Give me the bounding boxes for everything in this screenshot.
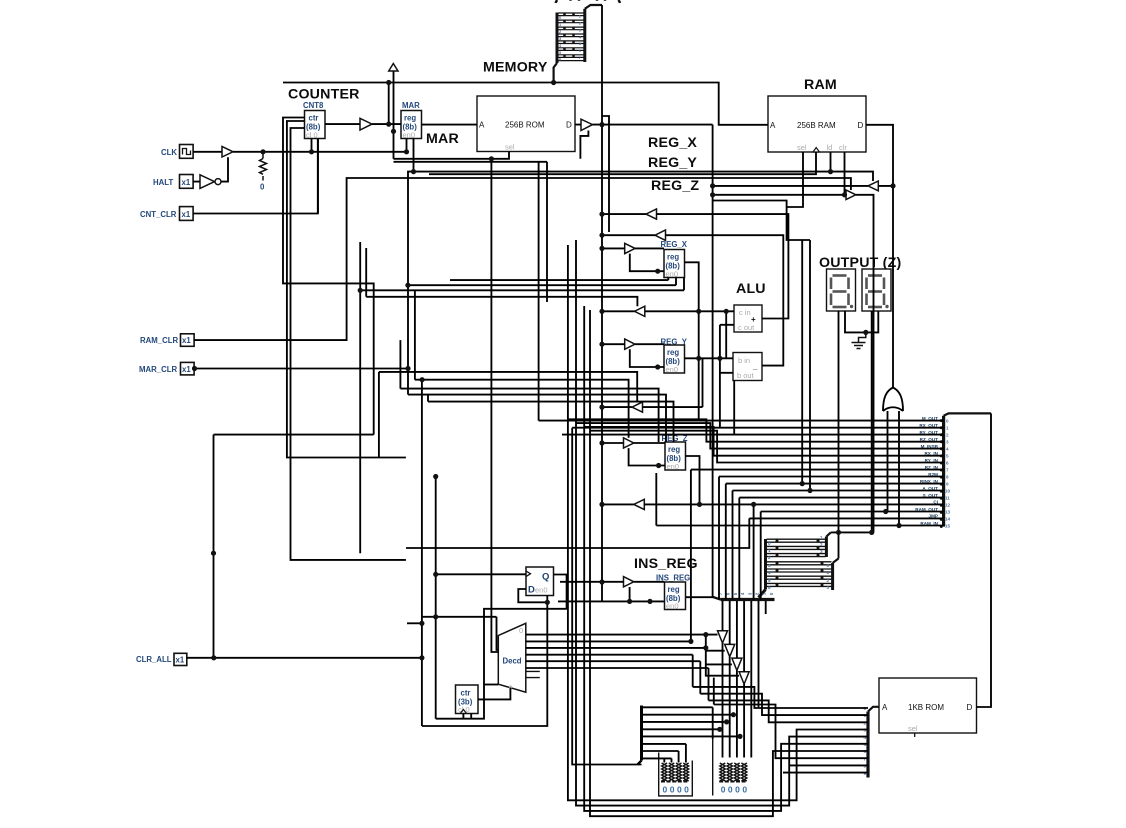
wire ROM D out — [977, 413, 992, 707]
wire RAM clr drop — [844, 152, 846, 195]
wire RAM_CLR net — [194, 178, 851, 340]
wire row9 RINX_IN — [726, 484, 944, 600]
wire CLR_ALL net — [187, 657, 422, 659]
svg-text:3: 3 — [946, 440, 949, 445]
buffer B_RY (in) — [625, 339, 635, 349]
svg-text:0: 0 — [827, 563, 830, 568]
wire row13 RAM_OUT — [761, 512, 944, 600]
svg-text:sel: sel — [797, 143, 807, 152]
wire MAR_CLR net — [194, 172, 873, 395]
wire RAM ld drop — [830, 152, 832, 172]
svg-text:2: 2 — [768, 555, 771, 560]
wire RAM clk drop — [429, 152, 816, 174]
wire ROM rows 8 9 — [783, 765, 868, 772]
svg-text:b in: b in — [738, 356, 750, 365]
svg-text:MAR: MAR — [402, 101, 420, 110]
svg-text:c out: c out — [738, 323, 755, 332]
register REG_Y reg(8b) — [664, 345, 685, 373]
wire flip-flop Q loop — [436, 575, 567, 719]
svg-text:REG_X: REG_X — [648, 135, 697, 151]
svg-text:x1: x1 — [182, 210, 191, 219]
svg-text:9: 9 — [946, 482, 949, 487]
svg-text:256B RAM: 256B RAM — [797, 121, 836, 130]
wire adder input line — [602, 310, 734, 312]
wire T3 enable — [366, 248, 637, 306]
svg-text:2: 2 — [820, 542, 823, 547]
wire REG_Y out to b-in — [685, 357, 734, 359]
svg-text:reg: reg — [667, 348, 679, 357]
wire MAR clock pin — [406, 139, 408, 152]
svg-text:4: 4 — [768, 570, 771, 575]
register REG_Z reg(8b) — [665, 442, 686, 470]
wire c-out b-out link — [720, 325, 734, 428]
svg-text:6: 6 — [768, 585, 771, 590]
register REG_X reg(8b) — [664, 250, 685, 278]
svg-text:2: 2 — [827, 578, 830, 583]
register INS_REG reg(8b) — [665, 582, 686, 610]
svg-text:x1: x1 — [182, 336, 191, 345]
wire REG_Z out — [686, 456, 700, 504]
decoder output pin stubs — [526, 671, 540, 677]
svg-text:ld: ld — [827, 143, 833, 152]
wire T5 line / CI row — [602, 503, 944, 505]
svg-text:1: 1 — [827, 570, 830, 575]
seven-segment display D1 — [827, 269, 856, 311]
decoder Decd — [498, 623, 526, 692]
wire MAR to ROM A — [422, 124, 478, 126]
wire 7seg pins — [838, 311, 840, 559]
wire CLK net — [193, 151, 406, 153]
svg-text:5: 5 — [733, 592, 738, 595]
svg-text:REG_Y: REG_Y — [648, 155, 697, 171]
svg-text:COUNTER: COUNTER — [288, 87, 360, 103]
wire REG_Z input — [602, 442, 665, 444]
svg-text:en0: en0 — [667, 462, 680, 471]
wire RAM data buffer lines — [713, 185, 893, 187]
wire row0 M_OUT — [539, 162, 944, 421]
buffer T4 (to bus, left) — [632, 402, 643, 412]
wire REG_X out — [685, 262, 699, 420]
svg-text:14: 14 — [945, 516, 951, 521]
svg-text:1: 1 — [762, 592, 767, 595]
wire INS reg out — [686, 596, 713, 598]
svg-text:en0: en0 — [403, 131, 416, 140]
bus splitter S1 (memory bus) — [554, 5, 602, 83]
svg-text:5: 5 — [946, 454, 949, 459]
svg-text:5: 5 — [768, 578, 771, 583]
memory 256B ROM — [477, 96, 575, 152]
wire dff clock riser — [435, 477, 437, 719]
buffer B_RX (in) — [625, 243, 635, 253]
wire row15 RAM_IN — [656, 473, 943, 526]
svg-text:0: 0 — [260, 183, 265, 192]
svg-text:en0: en0 — [535, 586, 548, 595]
seven-segment display D2 — [862, 269, 891, 311]
svg-text:A: A — [882, 703, 888, 712]
SEC:TITLE — [556, 0, 620, 3]
wire row10 A_OUT — [733, 491, 944, 600]
wire sel branch to decoder — [491, 159, 498, 652]
svg-text:3: 3 — [747, 592, 752, 595]
buffer B_ROMD — [581, 119, 593, 130]
wire bus jog — [602, 116, 609, 232]
wire nest to regs — [450, 279, 668, 281]
counter ctr(3b) — [456, 685, 479, 714]
wire OR gate inputs — [888, 411, 900, 526]
svg-text:MEMORY: MEMORY — [483, 60, 548, 76]
wire REG_X en loop — [630, 254, 664, 272]
buffer TD1 (down) — [718, 631, 728, 643]
wire write buffer out — [856, 195, 874, 533]
supply arrow (VCC) — [389, 64, 398, 72]
wire K2 wall — [712, 707, 714, 739]
svg-text:en0: en0 — [666, 602, 679, 611]
svg-text:x1: x1 — [182, 178, 191, 187]
svg-text:1: 1 — [768, 548, 771, 553]
svg-text:INS_REG: INS_REG — [634, 556, 698, 572]
wire RAM D vertical — [866, 125, 893, 384]
wire row1 RX_OUT — [572, 427, 943, 429]
buffer B_RAMD (left-pointing) — [868, 181, 878, 191]
wire memory splitter drop — [388, 83, 390, 125]
wire to S5 splitter — [572, 428, 641, 765]
svg-text:3: 3 — [820, 549, 823, 554]
wire ctr3b out to decoder sel — [478, 688, 510, 700]
buffer B_RZ (in) — [624, 438, 634, 448]
svg-text:D: D — [858, 121, 864, 130]
wire ROM buffer enable — [580, 131, 588, 159]
svg-text:4: 4 — [740, 592, 745, 595]
wire INS en loop — [629, 587, 631, 601]
svg-text:3: 3 — [768, 563, 771, 568]
ALU subtractor (b in / b out) — [733, 353, 762, 381]
counter CNT8 ctr(8b) — [305, 111, 326, 139]
bus splitter S2 (instruction fan-out bar) — [713, 590, 775, 600]
svg-text:1: 1 — [946, 426, 949, 431]
wire sel second line — [394, 161, 548, 163]
wire row12 CI drop — [753, 504, 755, 599]
wire mid bundle — [379, 372, 637, 458]
ground symbol — [852, 332, 866, 348]
wire h617 — [422, 617, 498, 650]
svg-text:12: 12 — [945, 502, 951, 507]
buffer T3 (REG_X to bus) — [635, 306, 645, 316]
svg-text:0: 0 — [519, 626, 523, 635]
svg-text:reg: reg — [668, 445, 680, 454]
wire ctr clr pin — [317, 139, 319, 214]
wire row7 RZ_IN — [691, 470, 944, 642]
wire REG_Y en loop — [630, 349, 664, 367]
wire ctr clock pin — [311, 139, 313, 152]
buffer B_RAMW (right-pointing) — [846, 190, 856, 200]
svg-text:8: 8 — [946, 475, 949, 480]
wire row6 RY_IN — [590, 431, 944, 463]
buffer B_CLK — [222, 147, 233, 158]
memory 1KB ROM — [879, 678, 977, 733]
control signal row numbers — [945, 419, 951, 529]
wire row5 RX_IN — [584, 427, 943, 456]
svg-text:CLR_ALL: CLR_ALL — [136, 655, 172, 664]
wire INS en line — [558, 600, 665, 602]
wire flip-flop en drop — [422, 596, 547, 727]
svg-text:CNT8: CNT8 — [303, 101, 324, 110]
svg-text:RAM: RAM — [804, 77, 837, 93]
svg-text:Decd: Decd — [503, 657, 522, 666]
buffer T2 (to bus, left) — [655, 230, 666, 240]
svg-text:D: D — [566, 121, 572, 130]
row pin dots — [940, 419, 943, 528]
wire counter feedback nest — [283, 118, 374, 435]
wire row11 S_OUT — [739, 498, 943, 600]
OR gate G1 — [883, 384, 903, 411]
svg-text:1KB ROM: 1KB ROM — [908, 703, 944, 712]
wire row3 RZ_OUT — [568, 419, 944, 441]
svg-text:A: A — [770, 121, 776, 130]
bus splitter S3 (two nibble buses) — [766, 532, 839, 590]
svg-text:MAR: MAR — [426, 131, 459, 147]
svg-text:reg: reg — [668, 585, 680, 594]
svg-text:13: 13 — [945, 510, 951, 515]
wire vcc arrow drop — [393, 72, 395, 159]
svg-text:x1: x1 — [176, 656, 185, 665]
RAM clock wedge — [813, 148, 819, 153]
control signal row labels — [915, 416, 938, 526]
wire flip-flop D loop — [518, 589, 547, 602]
constant group K1 (0 0 0 0) — [659, 753, 693, 796]
wire ALU b drop — [733, 381, 735, 435]
wire S5 splitter bar and rungs — [640, 706, 643, 761]
svg-text:D: D — [528, 585, 535, 596]
svg-text:6: 6 — [946, 461, 949, 466]
svg-text:D: D — [967, 703, 973, 712]
svg-text:A: A — [479, 121, 485, 130]
wire ROM sel — [394, 152, 510, 159]
ALU adder (c in / c out) — [734, 305, 762, 332]
svg-text:10: 10 — [945, 489, 951, 494]
svg-text:cl 0: cl 0 — [306, 131, 318, 140]
wire REG_Y input — [602, 343, 664, 345]
wire instruction fan verticals — [722, 601, 724, 631]
svg-text:en0: en0 — [666, 365, 679, 374]
buffer TD2 (down) — [725, 644, 735, 656]
svg-text:REG_X: REG_X — [661, 240, 688, 249]
svg-text:_: _ — [752, 362, 758, 371]
wire c-in to b-in link — [725, 311, 727, 358]
svg-text:RAM_CLR: RAM_CLR — [140, 336, 178, 345]
wire row14 JMP — [406, 518, 944, 548]
wire ctr to buffer to MAR — [325, 123, 401, 125]
buffer TD4 (down) — [739, 672, 749, 684]
svg-text:0: 0 — [769, 592, 774, 595]
wire REG_Z en loop — [629, 448, 665, 465]
svg-text:CLK: CLK — [161, 148, 177, 157]
wire MAR en pin — [413, 139, 415, 172]
buffer TD3 (down) — [732, 658, 742, 670]
svg-text:0: 0 — [946, 419, 949, 424]
wire CLR vertical — [421, 380, 423, 726]
svg-text:0000: 0000 — [663, 785, 692, 795]
svg-text:0000: 0000 — [721, 785, 750, 795]
svg-text:REG_Z: REG_Z — [651, 178, 699, 194]
svg-text:ctr: ctr — [461, 689, 471, 698]
svg-text:15: 15 — [945, 524, 951, 529]
svg-text:sel: sel — [908, 724, 918, 733]
wire h623 — [407, 622, 422, 624]
wire decoder enable — [484, 684, 498, 686]
pullup resistor R0 — [260, 152, 267, 180]
wire T2 line (ALU- to bus) — [602, 235, 783, 365]
svg-text:CNT_CLR: CNT_CLR — [140, 210, 177, 219]
svg-text:2: 2 — [946, 433, 949, 438]
svg-text:7: 7 — [946, 468, 949, 473]
wire row8 R2M — [719, 477, 944, 600]
svg-text:11: 11 — [945, 496, 950, 501]
svg-text:HALT: HALT — [153, 178, 173, 187]
wire REG column vertical — [712, 125, 714, 598]
bus splitter S4 (ROM address bar) — [868, 707, 879, 778]
wire ctr3b clock stubs — [463, 714, 471, 719]
svg-text:3: 3 — [827, 585, 830, 590]
title cut-off glyph tips — [556, 0, 620, 3]
svg-text:256B ROM: 256B ROM — [505, 121, 545, 130]
NOT gate N_HALT — [200, 175, 215, 189]
wire T1 line (ALU+ to bus) — [602, 214, 788, 318]
svg-text:c in: c in — [739, 308, 751, 317]
wire decoder outputs — [526, 634, 718, 636]
svg-text:b out: b out — [737, 371, 755, 380]
wire row2 RY_OUT — [214, 435, 374, 658]
wire enable chain vertical — [706, 635, 739, 676]
wire row4 M_INSB — [576, 423, 944, 449]
ctr(3b) clock wedge — [460, 710, 466, 714]
wire ROM D to bus — [575, 124, 713, 126]
register MAR reg(8b) — [401, 111, 422, 139]
svg-text:x1: x1 — [182, 365, 191, 374]
wire top rail to RAM A — [283, 83, 768, 125]
wire HALT net — [193, 157, 228, 181]
svg-text:ctr: ctr — [309, 114, 319, 123]
svg-text:0: 0 — [768, 541, 771, 546]
svg-text:2: 2 — [755, 592, 760, 595]
svg-text:reg: reg — [404, 114, 416, 123]
control signal tap bar — [944, 413, 991, 526]
wire T4 line — [602, 358, 703, 407]
buffer B_INS (in) — [624, 577, 634, 587]
svg-text:Q: Q — [542, 572, 549, 583]
buffer T5 (REG_Z to bus) — [634, 499, 645, 509]
svg-text:MAR_CLR: MAR_CLR — [139, 365, 177, 374]
svg-text:ALU: ALU — [736, 281, 766, 297]
wire INS input — [560, 581, 665, 583]
wire flip-flop clock line — [436, 573, 526, 575]
wire TD outputs to constants — [722, 643, 724, 758]
svg-text:en0: en0 — [666, 270, 679, 279]
SEC:WIRES — [187, 5, 991, 816]
wire display return — [831, 531, 874, 533]
buffer T1 (to bus, left) — [646, 209, 657, 219]
svg-text:1: 1 — [820, 535, 823, 540]
constant group K2 (0 0 0 0) — [713, 739, 748, 796]
svg-text:reg: reg — [667, 253, 679, 262]
svg-text:4: 4 — [946, 447, 949, 452]
wire ROM staircase — [693, 687, 868, 708]
wire RAM sel drop — [787, 152, 803, 207]
wire CNT_CLR net — [193, 139, 318, 214]
wire REG_X input — [602, 247, 664, 249]
svg-text:clr: clr — [839, 143, 847, 152]
svg-text:sel: sel — [505, 143, 515, 152]
flip-flop FF1 (D/Q) — [526, 567, 554, 596]
memory 256B RAM — [768, 96, 866, 152]
buffer B_CNT — [360, 118, 372, 130]
wire left loop verticals — [568, 245, 868, 800]
wire data bus vertical — [601, 5, 603, 601]
